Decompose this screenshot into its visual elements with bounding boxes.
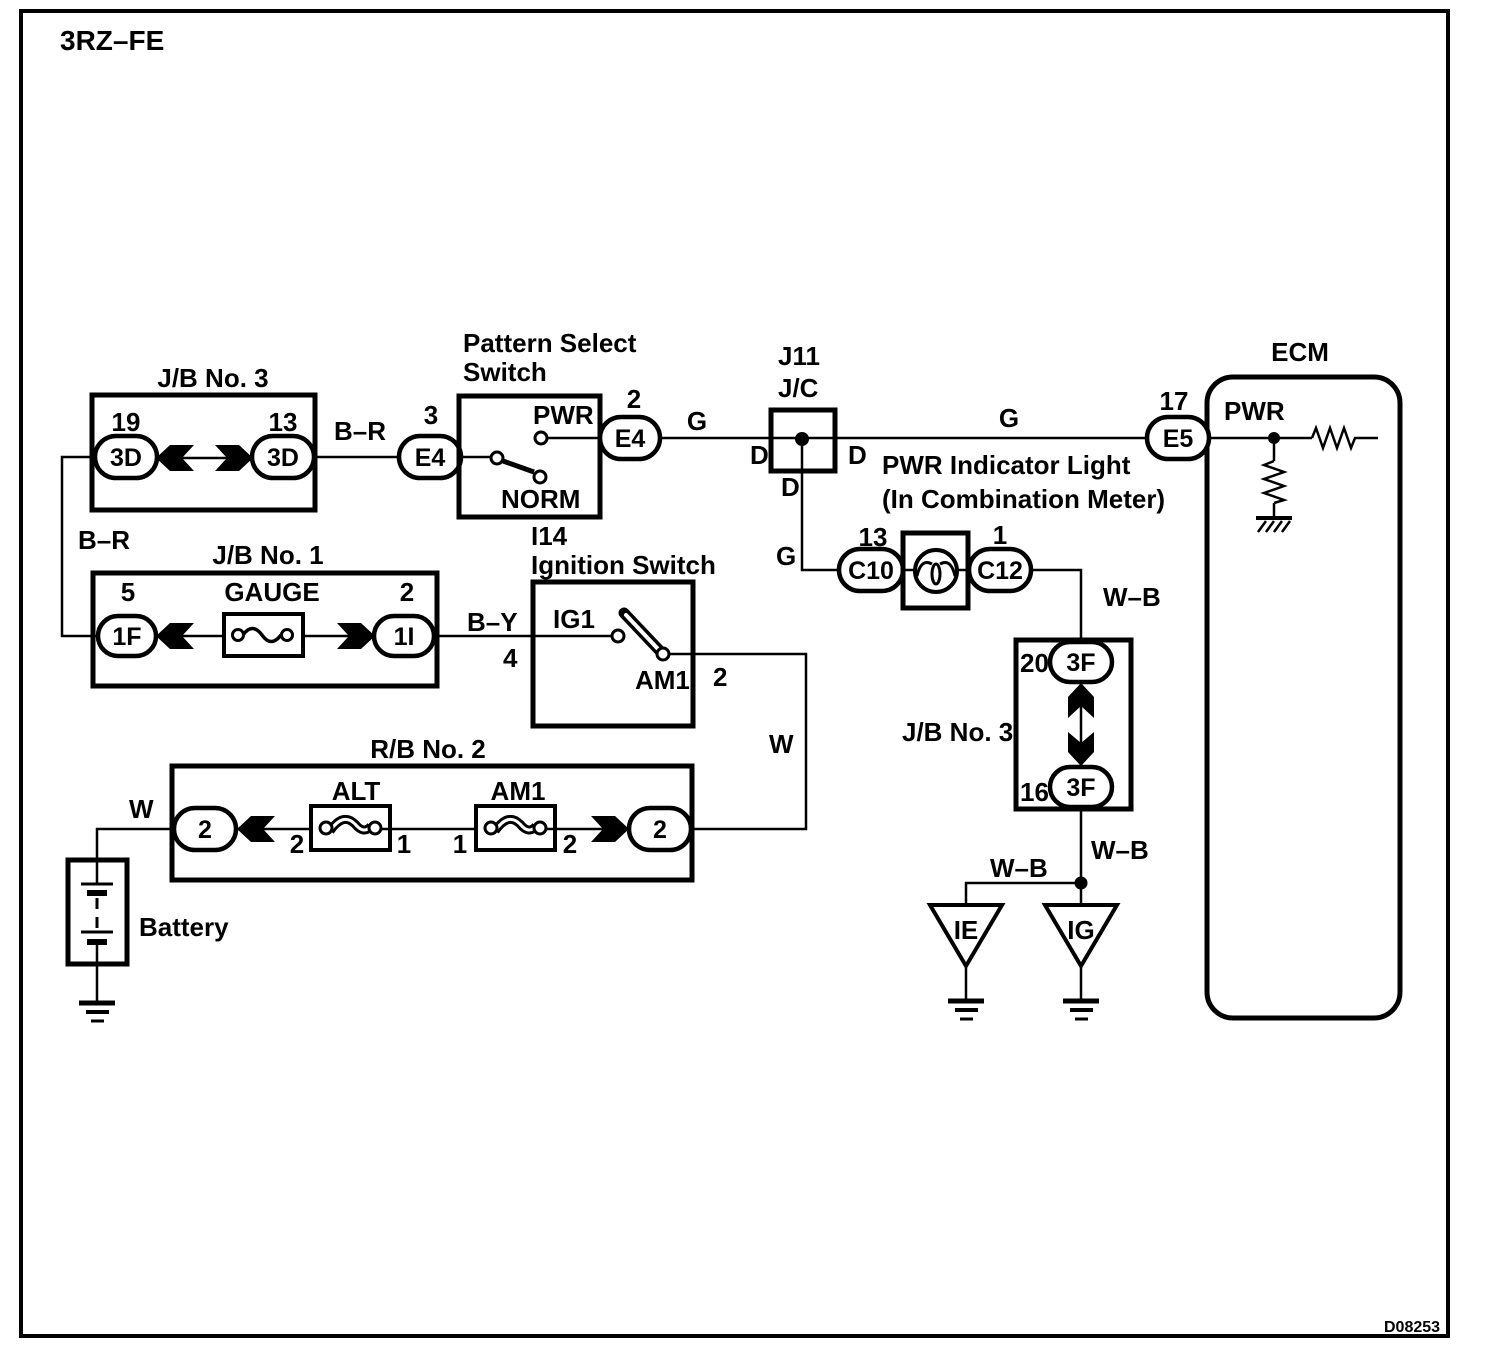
svg-text:E4: E4 bbox=[615, 425, 646, 453]
svg-text:IG1: IG1 bbox=[553, 604, 595, 634]
wire E4 to switch common contact bbox=[461, 456, 491, 459]
battery plate long (bottom) bbox=[81, 931, 113, 934]
fusible link AM1 element bbox=[495, 819, 536, 831]
junction node in J/C bbox=[795, 432, 809, 446]
ground (IG) bbox=[1063, 999, 1099, 1004]
ECM U1 box bbox=[1207, 377, 1400, 1018]
connector E4 pin 2 bbox=[600, 417, 660, 459]
wire resistor to chassis ground bbox=[1273, 503, 1276, 518]
svg-text:2: 2 bbox=[627, 384, 641, 414]
svg-text:1: 1 bbox=[993, 520, 1007, 550]
connector 2 (left) bbox=[174, 808, 236, 850]
pattern select switch box bbox=[459, 396, 600, 517]
arrow up toward 3F pin 20 bbox=[1068, 683, 1094, 718]
ground connector IG triangle bbox=[1045, 905, 1117, 966]
wire AM1 fuse to connector 2 (right) bbox=[546, 828, 629, 831]
svg-text:W–B: W–B bbox=[1091, 835, 1149, 865]
lamp wires bbox=[903, 569, 915, 572]
svg-text:J/C: J/C bbox=[778, 373, 819, 403]
svg-text:C12: C12 bbox=[977, 557, 1023, 585]
ignition switch lever bbox=[624, 613, 660, 651]
wire GAUGE fuse to 1I bbox=[292, 635, 375, 638]
wire down to pull-down resistor bbox=[1273, 438, 1276, 461]
junction block J/B No.3 (top left) box bbox=[92, 395, 315, 510]
wire ALT to AM1 fuse bbox=[381, 828, 482, 831]
arrow into connector 2 (left) bbox=[237, 816, 275, 842]
svg-text:J11: J11 bbox=[778, 341, 820, 371]
svg-text:D08253: D08253 bbox=[1384, 1319, 1440, 1336]
battery positive lead bbox=[96, 860, 99, 883]
svg-text:E5: E5 bbox=[1163, 425, 1194, 453]
svg-text:G: G bbox=[687, 406, 707, 436]
wire 1F to GAUGE fuse bbox=[156, 635, 233, 638]
svg-text:W–B: W–B bbox=[990, 853, 1048, 883]
svg-text:19: 19 bbox=[112, 407, 141, 437]
svg-text:20: 20 bbox=[1020, 648, 1049, 678]
svg-text:3: 3 bbox=[424, 400, 438, 430]
svg-text:C10: C10 bbox=[848, 557, 894, 585]
svg-text:2: 2 bbox=[713, 662, 727, 692]
svg-text:R/B No. 2: R/B No. 2 bbox=[370, 734, 486, 764]
wire D from J/C down to C10 bbox=[802, 446, 839, 570]
wire through J/C bbox=[771, 437, 835, 440]
connector 3D pin 19 bbox=[95, 436, 157, 478]
svg-text:3F: 3F bbox=[1066, 649, 1095, 677]
svg-text:D: D bbox=[848, 440, 867, 470]
wire B-R from 3D pin 13 to E4 bbox=[314, 456, 400, 459]
wire E5 into ECM bbox=[1209, 437, 1312, 440]
arrow down toward 3F pin 16 bbox=[1068, 732, 1094, 766]
svg-text:J/B No. 3: J/B No. 3 bbox=[157, 363, 268, 393]
junction node W-B bbox=[1075, 877, 1088, 890]
wire W from AM1 to R/B No.2 bbox=[669, 654, 806, 829]
svg-text:Ignition Switch: Ignition Switch bbox=[531, 550, 716, 580]
svg-text:B–R: B–R bbox=[334, 416, 386, 446]
connector 3D pin 13 bbox=[252, 436, 314, 478]
connector 1F pin 5 bbox=[98, 616, 156, 656]
svg-text:E4: E4 bbox=[415, 444, 446, 472]
chassis ground (in ECM) bbox=[1256, 516, 1292, 520]
svg-text:G: G bbox=[999, 403, 1019, 433]
resistor (horizontal, in ECM) bbox=[1312, 428, 1378, 448]
svg-text:13: 13 bbox=[269, 407, 298, 437]
svg-text:I14: I14 bbox=[531, 521, 568, 551]
connector E4 pin 3 bbox=[399, 436, 461, 478]
relay block R/B No.2 box bbox=[172, 766, 692, 880]
wire between 3D connectors bbox=[157, 457, 252, 460]
arrow toward 1I bbox=[337, 623, 375, 649]
battery plate short (top) bbox=[87, 890, 107, 896]
svg-text:Switch: Switch bbox=[463, 357, 547, 387]
svg-text:16: 16 bbox=[1020, 777, 1049, 807]
arrow toward connector 2 (right) bbox=[591, 816, 629, 842]
connector E5 pin 17 bbox=[1147, 417, 1209, 459]
wire IG to ground bbox=[1080, 966, 1083, 1001]
wire PWR contact to E4 pin 2 bbox=[547, 437, 601, 440]
svg-text:Battery: Battery bbox=[139, 912, 229, 942]
ground (battery) bbox=[79, 1001, 115, 1006]
ignition AM1 contact bbox=[657, 648, 669, 660]
fusible link AM1 box bbox=[476, 806, 555, 850]
junction block J/B No.1 box bbox=[93, 573, 437, 686]
svg-text:3D: 3D bbox=[110, 444, 142, 472]
svg-text:ECM: ECM bbox=[1271, 337, 1329, 367]
arrow into 1F bbox=[156, 623, 194, 649]
fusible link ALT box bbox=[311, 806, 390, 850]
svg-text:IG: IG bbox=[1067, 915, 1094, 945]
ignition switch box bbox=[533, 582, 693, 726]
connector C12 pin 1 bbox=[969, 549, 1031, 591]
fuse GAUGE box bbox=[224, 614, 303, 656]
wire G from E4 pin 2 to J/C bbox=[660, 437, 771, 440]
resistor (vertical, to ground) bbox=[1264, 461, 1284, 503]
svg-text:5: 5 bbox=[121, 577, 135, 607]
battery plate short (bottom) bbox=[87, 939, 107, 945]
connector C10 pin 13 bbox=[839, 549, 903, 591]
svg-text:3F: 3F bbox=[1066, 774, 1095, 802]
svg-text:W–B: W–B bbox=[1103, 582, 1161, 612]
wire B-R from 3D pin 19 left and down to 1F bbox=[62, 457, 98, 636]
wire 2 to ALT fuse bbox=[236, 828, 320, 831]
svg-text:J/B No. 3: J/B No. 3 bbox=[902, 717, 1013, 747]
svg-text:1I: 1I bbox=[394, 623, 415, 651]
junction connector J11 box bbox=[771, 410, 835, 471]
svg-text:1: 1 bbox=[453, 829, 467, 859]
arrow into 3D pin 19 bbox=[156, 445, 194, 471]
wire branch to IE bbox=[966, 883, 1081, 905]
connector 1I pin 2 bbox=[374, 616, 434, 656]
connector 2 (right) bbox=[629, 808, 691, 850]
connector 3F pin 16 bbox=[1050, 767, 1112, 807]
svg-text:J/B No. 1: J/B No. 1 bbox=[212, 540, 323, 570]
svg-text:B–Y: B–Y bbox=[467, 607, 518, 637]
svg-text:B–R: B–R bbox=[78, 525, 130, 555]
junction block J/B No.3 (right) box bbox=[1016, 640, 1131, 809]
junction node PWR bbox=[1268, 432, 1280, 444]
switch PWR contact bbox=[535, 432, 547, 444]
svg-text:3D: 3D bbox=[267, 444, 299, 472]
svg-text:GAUGE: GAUGE bbox=[224, 577, 319, 607]
svg-text:1F: 1F bbox=[112, 623, 141, 651]
connector 3F pin 20 bbox=[1050, 642, 1112, 682]
wire G from J/C to E5 bbox=[835, 437, 1147, 440]
arrow toward 3D pin 13 bbox=[215, 445, 253, 471]
PWR indicator lamp box bbox=[903, 533, 968, 608]
svg-text:PWR: PWR bbox=[1224, 396, 1285, 426]
fusible link ALT element bbox=[330, 819, 371, 831]
PWR indicator lamp bulb bbox=[915, 550, 957, 592]
battery box bbox=[68, 860, 127, 964]
svg-text:AM1: AM1 bbox=[635, 665, 690, 695]
svg-text:D: D bbox=[781, 472, 800, 502]
svg-text:2: 2 bbox=[198, 816, 212, 844]
svg-text:PWR: PWR bbox=[533, 400, 594, 430]
ignition IG1 contact bbox=[612, 630, 624, 642]
wire between 3F connectors bbox=[1080, 682, 1083, 767]
svg-text:17: 17 bbox=[1160, 386, 1189, 416]
wire IE to ground bbox=[965, 966, 968, 1001]
svg-text:2: 2 bbox=[290, 829, 304, 859]
battery plate long (top) bbox=[81, 883, 113, 886]
svg-text:NORM: NORM bbox=[501, 484, 580, 514]
wire W from battery to R/B No.2 bbox=[97, 829, 174, 860]
wire B-Y from 1I to ignition switch bbox=[434, 635, 612, 638]
svg-text:IE: IE bbox=[954, 915, 979, 945]
wire W-B from C12 to 3F bbox=[1031, 570, 1081, 643]
battery negative lead to ground bbox=[96, 945, 99, 1003]
svg-text:W: W bbox=[769, 729, 794, 759]
svg-text:D: D bbox=[750, 440, 769, 470]
ground connector IE triangle bbox=[930, 905, 1002, 966]
wire W-B from 3F pin 16 down bbox=[1080, 807, 1083, 905]
switch common contact bbox=[491, 452, 503, 464]
svg-text:2: 2 bbox=[400, 577, 414, 607]
switch NORM contact bbox=[534, 471, 546, 483]
svg-text:4: 4 bbox=[503, 643, 518, 673]
battery center dashed link bbox=[96, 898, 99, 930]
svg-text:PWR Indicator Light: PWR Indicator Light bbox=[882, 450, 1131, 480]
svg-text:1: 1 bbox=[397, 829, 411, 859]
svg-text:3RZ–FE: 3RZ–FE bbox=[60, 25, 164, 56]
svg-text:AM1: AM1 bbox=[491, 776, 546, 806]
svg-text:2: 2 bbox=[653, 816, 667, 844]
svg-text:ALT: ALT bbox=[332, 776, 381, 806]
switch lever (in NORM position) bbox=[503, 461, 534, 472]
ground (IE) bbox=[948, 999, 984, 1004]
svg-text:G: G bbox=[776, 541, 796, 571]
fuse GAUGE element bbox=[243, 629, 281, 642]
svg-text:2: 2 bbox=[563, 829, 577, 859]
svg-text:Pattern Select: Pattern Select bbox=[463, 328, 637, 358]
svg-text:W: W bbox=[129, 794, 154, 824]
svg-text:(In Combination Meter): (In Combination Meter) bbox=[882, 484, 1165, 514]
